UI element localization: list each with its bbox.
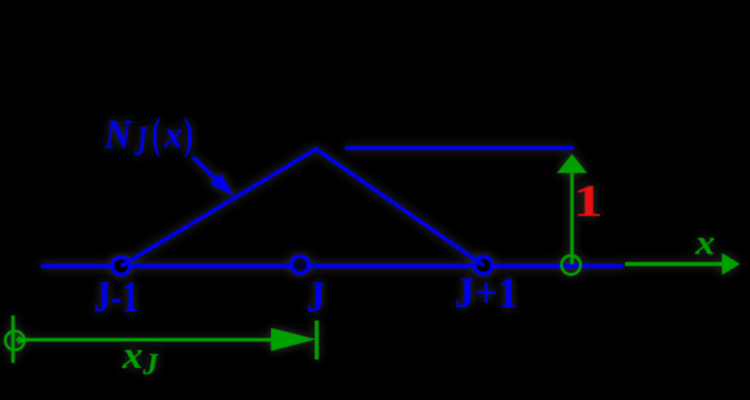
svg-text:): )	[184, 109, 193, 158]
svg-text:J+1: J+1	[454, 270, 518, 317]
svg-text:(: (	[152, 109, 160, 158]
svg-text:J-1: J-1	[94, 273, 139, 321]
svg-text:x: x	[694, 224, 715, 262]
svg-text:N: N	[103, 111, 132, 157]
svg-text:J: J	[134, 118, 148, 165]
svg-text:J: J	[142, 347, 159, 381]
svg-text:x: x	[121, 333, 143, 377]
svg-text:x: x	[163, 114, 182, 156]
svg-text:1: 1	[573, 177, 603, 227]
svg-text:J: J	[307, 272, 326, 320]
